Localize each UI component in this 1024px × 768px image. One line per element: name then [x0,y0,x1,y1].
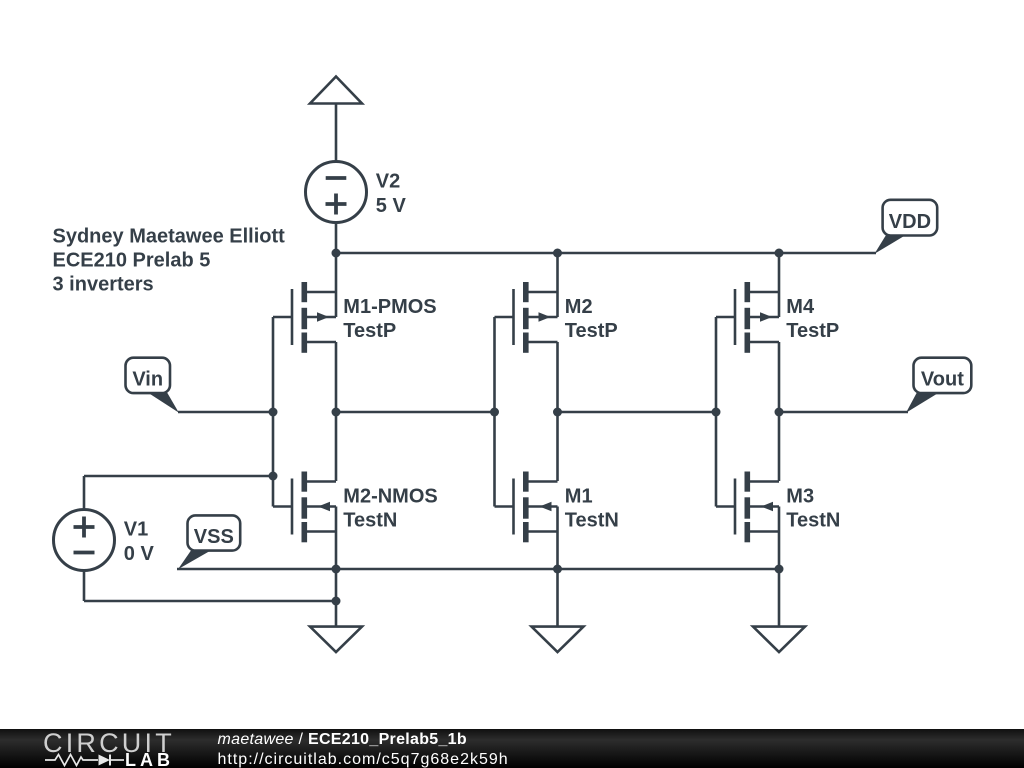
svg-text:VSS: VSS [194,526,234,548]
ground [532,627,584,652]
voltage source V1 [54,510,115,571]
svg-text:maetawee / ECE210_Prelab5_1b: maetawee / ECE210_Prelab5_1b [218,731,467,748]
wire (V1- to ground column) [84,600,336,603]
svg-text:http://circuitlab.com/c5q7g68e: http://circuitlab.com/c5q7g68e2k59h [218,751,509,768]
wire (Vin to M1 gates) [178,411,273,414]
transistor M1 (NMOS) [495,472,558,543]
wire (NMOS source to ground) [778,507,781,627]
label M1-PMOS / TestP [343,296,436,342]
wire (VDD bus) [336,252,876,255]
node (stage3 output) [775,408,784,417]
wire (NMOS source to ground) [335,507,338,627]
node (M4 drain) [775,249,784,258]
wire (PMOS source to output) [335,342,338,412]
svg-text:M2: M2 [565,296,593,318]
wire (stage1 out to stage2 in) [336,411,495,414]
power arrow (V2 top terminal) [310,77,362,104]
wire (output to NMOS drain) [778,412,781,481]
svg-text:M1-PMOS: M1-PMOS [343,296,436,318]
svg-text:5 V: 5 V [376,195,407,217]
node (stage2 input) [490,408,499,417]
label V2 / 5 V [376,171,407,217]
wire (V1+ to Vin node) [84,475,273,478]
wire [335,104,338,162]
svg-text:TestP: TestP [786,320,839,342]
svg-text:TestN: TestN [786,509,840,531]
wire (V1- down) [83,572,86,601]
label M2-NMOS / TestN [343,486,437,532]
wire (stage2 out to stage3 in) [558,411,717,414]
node (stage1 output) [332,408,341,417]
wire (gate column) [715,317,718,507]
wire (PMOS drain to VDD) [556,253,559,317]
node (V1- / ground) [332,597,341,606]
svg-text:TestP: TestP [343,320,396,342]
wire (output to NMOS drain) [335,412,338,481]
annotation text [53,226,286,296]
label V1 / 0 V [124,519,155,565]
svg-text:TestN: TestN [343,509,397,531]
net flag Vin [126,358,179,413]
svg-text:M3: M3 [786,486,814,508]
ground [310,627,362,652]
wire (PMOS source to output) [556,342,559,412]
label M4 / TestP [786,296,839,342]
transistor M3 (NMOS) [716,472,779,543]
node (V1+ / Vin) [269,472,278,481]
svg-text:V1: V1 [124,519,148,541]
svg-text:TestP: TestP [565,320,618,342]
label M1 / TestN [565,486,619,532]
transistor M2 (PMOS) [495,282,558,353]
wire (gate column) [272,317,275,507]
net flag VSS [178,515,240,569]
wire (PMOS drain to VDD) [778,253,781,317]
net flag VDD [875,200,938,254]
transistor M1-PMOS (PMOS) [273,282,336,353]
svg-text:ECE210 Prelab 5: ECE210 Prelab 5 [53,250,211,272]
label M2 / TestP [565,296,618,342]
node (Vin / M1 gates) [269,408,278,417]
wire [335,222,338,253]
svg-text:M1: M1 [565,486,593,508]
transistor M4 (PMOS) [716,282,779,353]
svg-text:M2-NMOS: M2-NMOS [343,486,437,508]
svg-text:M4: M4 [786,296,815,318]
svg-text:Vin: Vin [132,369,163,391]
wire (stage3 out to Vout) [779,411,908,414]
svg-text:LAB: LAB [125,750,174,768]
wire (V1+ up) [83,476,86,508]
svg-text:3 inverters: 3 inverters [53,274,154,296]
node (M2 drain) [553,249,562,258]
svg-text:Vout: Vout [921,369,964,391]
svg-text:Sydney Maetawee Elliott: Sydney Maetawee Elliott [53,226,286,248]
net flag Vout [906,358,971,413]
CircuitLab logo [0,729,1024,768]
wire (NMOS source to ground) [556,507,559,627]
wire (VSS bus) [177,568,779,571]
ground [753,627,805,652]
svg-text:TestN: TestN [565,509,619,531]
node (VSS / M2-NMOS source) [332,565,341,574]
label M3 / TestN [786,486,840,532]
logo resistor symbol [45,755,98,766]
svg-text:V2: V2 [376,171,400,193]
wire (output to NMOS drain) [556,412,559,481]
logo diode symbol [99,755,125,766]
svg-text:VDD: VDD [889,211,931,233]
node (V2 / M1-PMOS drain) [332,249,341,258]
node (stage2 output) [553,408,562,417]
wire (gate column) [493,317,496,507]
node (VSS / M3 source) [775,565,784,574]
wire (PMOS drain to VDD) [335,253,338,317]
svg-text:0 V: 0 V [124,543,155,565]
voltage source V2 [306,162,367,223]
node (VSS / M1 source) [553,565,562,574]
wire (PMOS source to output) [778,342,781,412]
node (stage3 input) [712,408,721,417]
transistor M2-NMOS (NMOS) [273,472,336,543]
